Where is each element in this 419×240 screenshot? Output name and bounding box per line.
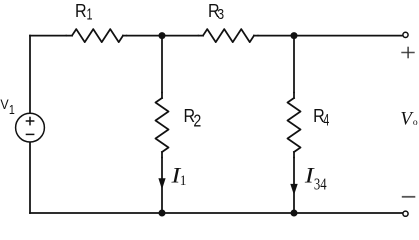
svg-text:I: I xyxy=(304,164,315,189)
svg-text:1: 1 xyxy=(87,5,93,22)
svg-text:3: 3 xyxy=(217,6,224,22)
svg-text:R: R xyxy=(75,0,87,21)
svg-text:V: V xyxy=(0,96,8,112)
svg-text:34: 34 xyxy=(314,176,327,194)
svg-text:4: 4 xyxy=(323,111,329,130)
svg-text:o: o xyxy=(413,117,418,128)
svg-text:1: 1 xyxy=(9,102,15,117)
svg-text:1: 1 xyxy=(180,173,187,190)
svg-text:2: 2 xyxy=(193,112,201,131)
